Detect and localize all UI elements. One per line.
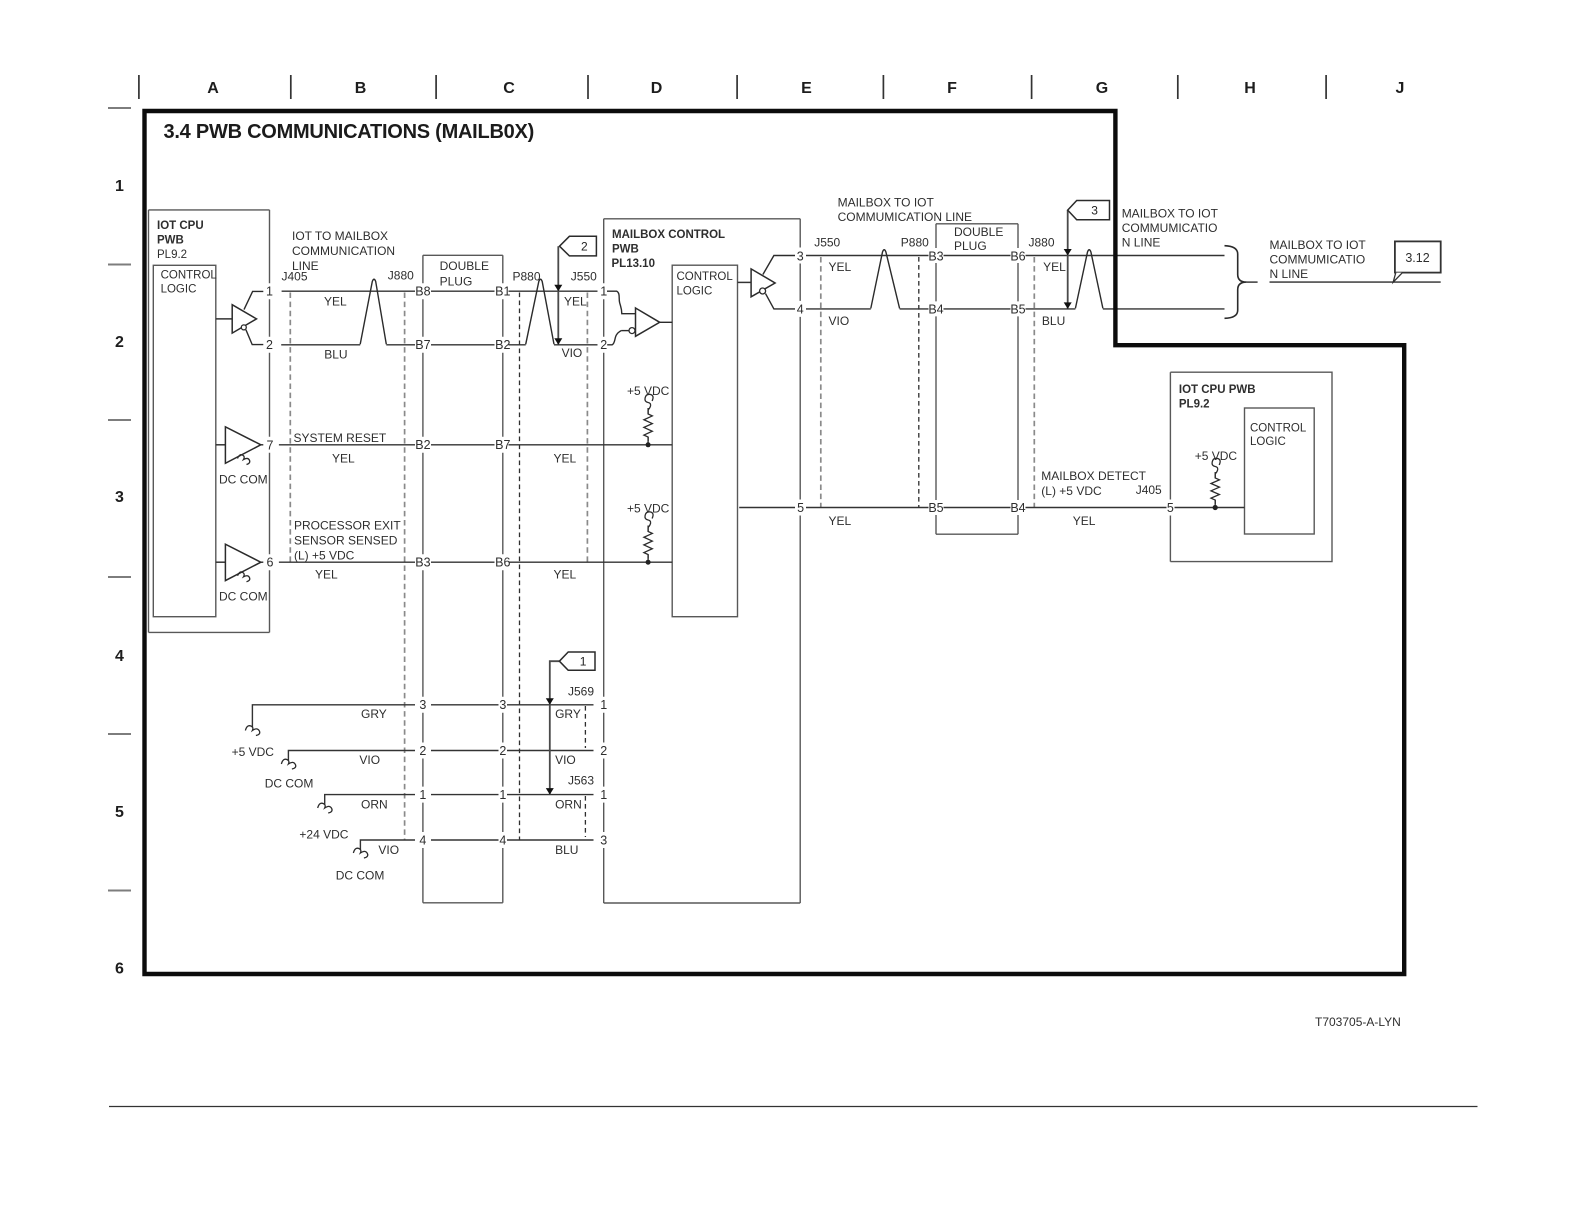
differential driver gate U5 (mailbox out) [738,256,796,309]
svg-text:MAILBOX CONTROL: MAILBOX CONTROL [612,229,725,241]
svg-text:YEL: YEL [554,568,577,582]
svg-text:B: B [355,80,367,97]
svg-text:2: 2 [581,239,588,253]
svg-text:2: 2 [419,744,426,758]
svg-text:3: 3 [797,249,804,263]
svg-text:DOUBLE: DOUBLE [440,259,489,273]
svg-text:PWB: PWB [612,243,639,255]
svg-text:DC COM: DC COM [219,473,268,487]
differential receiver gate U4 (mailbox in) [607,291,672,345]
svg-text:A: A [207,80,219,97]
svg-text:B6: B6 [1010,249,1025,263]
svg-text:3: 3 [419,698,426,712]
svg-text:COMMUMICATIO: COMMUMICATIO [1122,221,1218,235]
svg-text:IOT CPU: IOT CPU [157,220,204,232]
svg-text:ORN: ORN [555,798,582,812]
svg-text:PLUG: PLUG [440,275,473,289]
connector J405 dashed line [282,270,308,563]
buffer gate U3 pin6 (schmitt) [216,544,268,603]
svg-text:DC COM: DC COM [336,869,385,883]
svg-text:3.4 PWB COMMUNICATIONS (MAILB0: 3.4 PWB COMMUNICATIONS (MAILB0X) [164,121,535,143]
off-page reference 3.12 [1270,241,1441,282]
svg-text:PWB: PWB [157,234,184,246]
svg-text:BLU: BLU [555,843,578,857]
svg-text:3: 3 [499,698,506,712]
mailbox left pin labels [600,285,607,848]
wire row1 IOT pin1 to mailbox pin1 (YEL) [282,291,598,308]
svg-text:B7: B7 [495,438,510,452]
svg-text:+5 VDC: +5 VDC [1195,449,1238,463]
svg-text:B4: B4 [928,303,943,317]
resistor R2 +5 VDC pull-up to row6 [627,502,670,565]
label IOT TO MAILBOX COMMUNICATION LINE [292,229,395,273]
CONTROL LOGIC box (left IOT CPU) [153,265,217,616]
svg-text:YEL: YEL [1073,514,1096,528]
DOUBLE PLUG box 1 [423,255,503,903]
MAILBOX CONTROL PWB box [604,219,801,903]
label MAILBOX TO IOT COMMUMICATION LINE (top) [838,196,972,225]
svg-text:ORN: ORN [361,798,388,812]
CONTROL LOGIC box (right IOT CPU) [1245,408,1315,534]
DOUBLE PLUG 1 left pin labels [415,285,430,848]
svg-text:YEL: YEL [332,452,355,466]
resistor R1 +5 VDC pull-up to row7 [627,384,670,447]
wire row GRY with +5 VDC source hook [232,705,594,759]
svg-text:P880: P880 [901,236,929,250]
svg-text:3: 3 [1091,203,1098,217]
svg-text:YEL: YEL [315,568,338,582]
flag 2 with arrows [554,236,596,344]
IOT CPU PWB right box [1170,372,1332,561]
svg-text:VIO: VIO [359,753,380,767]
svg-text:B8: B8 [415,285,430,299]
brace to off-page [1225,246,1258,319]
DOUBLE PLUG box 2 [936,224,1018,534]
svg-text:1: 1 [419,788,426,802]
svg-text:J: J [1396,80,1405,97]
wire row3 mailbox pin3 (YEL) [806,256,1225,274]
connector J569 dashed segment [568,685,594,749]
svg-text:7: 7 [267,438,274,452]
svg-text:+5 VDC: +5 VDC [627,502,670,516]
svg-text:DOUBLE: DOUBLE [954,225,1003,239]
svg-text:VIO: VIO [562,346,583,360]
mailbox right pin labels 3 4 5 [797,249,804,515]
svg-text:3.12: 3.12 [1405,251,1429,265]
svg-text:B2: B2 [495,338,510,352]
svg-text:LOGIC: LOGIC [1250,436,1286,448]
svg-text:VIO: VIO [829,314,850,328]
svg-text:PL13.10: PL13.10 [612,258,655,270]
svg-text:2: 2 [600,338,607,352]
svg-text:COMMUMICATIO: COMMUMICATIO [1270,253,1366,267]
svg-text:N LINE: N LINE [1122,236,1161,250]
svg-text:B2: B2 [415,438,430,452]
svg-text:F: F [947,80,957,97]
flag 1 with arrows [546,652,595,795]
svg-text:T703705-A-LYN: T703705-A-LYN [1315,1015,1401,1029]
connector J550 right dashed line [814,236,840,508]
DOUBLE PLUG 2 right pin labels [1010,249,1025,515]
svg-text:CONTROL: CONTROL [1250,422,1307,434]
buffer gate U2 pin7 (schmitt) [216,427,268,487]
svg-text:MAILBOX DETECT: MAILBOX DETECT [1041,469,1146,483]
svg-text:B1: B1 [495,285,510,299]
label MAILBOX TO IOT COMMUMICATIO N LINE (inner) [1122,207,1219,250]
svg-text:2: 2 [266,338,273,352]
drawing number T703705-A-LYN [1315,1015,1401,1029]
resistor R3 +5 VDC pull-up (right IOT) [1195,449,1238,510]
CONTROL LOGIC box (mailbox) [672,265,737,617]
svg-text:YEL: YEL [324,295,347,309]
svg-text:5: 5 [115,804,124,821]
svg-text:PLUG: PLUG [954,239,987,253]
svg-text:YEL: YEL [829,260,852,274]
svg-text:4: 4 [499,833,506,847]
svg-text:DC COM: DC COM [219,590,268,604]
svg-text:+24 VDC: +24 VDC [299,828,348,842]
IOT left pin labels 1 2 7 6 [266,285,274,570]
svg-text:E: E [801,80,812,97]
IOT CPU PWB left box [149,210,270,633]
svg-text:6: 6 [115,961,124,978]
svg-text:DC COM: DC COM [265,777,314,791]
svg-text:J550: J550 [814,236,840,250]
svg-text:(L) +5 VDC: (L) +5 VDC [1041,484,1102,498]
svg-text:CONTROL: CONTROL [677,271,734,283]
twisted pair twist symbol 1 [360,279,386,344]
svg-text:(L) +5 VDC: (L) +5 VDC [294,549,355,563]
twisted pair twist symbol 4 [1075,250,1103,309]
svg-text:D: D [651,80,663,97]
svg-text:BLU: BLU [1042,314,1065,328]
svg-text:3: 3 [115,489,124,506]
wire row ORN with +24 VDC hook [299,795,593,842]
svg-text:IOT TO MAILBOX: IOT TO MAILBOX [292,229,388,243]
svg-text:YEL: YEL [829,514,852,528]
footer rule [109,1106,1478,1108]
wire row2 IOT pin2 to mailbox pin2 (BLU/VIO) [281,345,597,362]
svg-text:PL9.2: PL9.2 [1179,399,1210,411]
row header ruler [108,108,131,978]
svg-text:LINE: LINE [292,259,319,273]
svg-text:J569: J569 [568,685,594,699]
wire row6 PROCESSOR EXIT SENSOR (YEL) [279,519,672,582]
svg-text:H: H [1244,80,1256,97]
svg-text:YEL: YEL [1043,260,1066,274]
svg-text:SENSOR SENSED: SENSOR SENSED [294,534,398,548]
title [164,121,535,143]
DOUBLE PLUG 1 right pin labels [495,285,510,848]
svg-text:PL9.2: PL9.2 [157,249,187,261]
svg-text:N LINE: N LINE [1270,267,1309,281]
svg-text:YEL: YEL [564,295,587,309]
connector J550 dashed line [571,270,597,563]
svg-text:GRY: GRY [361,707,387,721]
svg-text:LOGIC: LOGIC [161,284,197,296]
svg-text:2: 2 [499,744,506,758]
svg-text:J880: J880 [1029,236,1055,250]
svg-text:J563: J563 [568,774,594,788]
svg-text:IOT CPU PWB: IOT CPU PWB [1179,384,1256,396]
svg-text:+5 VDC: +5 VDC [232,745,275,759]
svg-text:2: 2 [600,744,607,758]
connector J880 right dashed line [1029,236,1055,508]
svg-text:GRY: GRY [555,707,581,721]
svg-text:5: 5 [1167,501,1174,515]
svg-text:1: 1 [499,788,506,802]
svg-text:4: 4 [419,833,426,847]
wire row VIO/BLU with DC COM hook [336,840,594,883]
wire row4 mailbox pin4 (VIO/BLU) [806,309,1225,328]
connector J563 dashed segment [568,774,594,838]
svg-text:B3: B3 [415,556,430,570]
svg-text:C: C [503,80,515,97]
wire row VIO with DC COM hook [265,751,594,791]
svg-text:YEL: YEL [554,452,577,466]
connector P880 dashed line [513,270,541,841]
column header ruler [139,75,1405,99]
svg-text:B7: B7 [415,338,430,352]
svg-text:1: 1 [266,285,273,299]
svg-text:LOGIC: LOGIC [677,285,713,297]
svg-text:B3: B3 [928,249,943,263]
svg-text:4: 4 [797,303,804,317]
svg-text:2: 2 [115,334,124,351]
svg-text:COMMUNICATION: COMMUNICATION [292,244,395,258]
svg-text:P880: P880 [513,270,541,284]
svg-text:5: 5 [797,501,804,515]
svg-text:1: 1 [600,788,607,802]
svg-text:CONTROL: CONTROL [161,269,218,281]
svg-text:B4: B4 [1010,501,1025,515]
svg-text:B5: B5 [928,501,943,515]
svg-text:1: 1 [600,285,607,299]
connector J880 dashed line [388,269,414,841]
svg-text:1: 1 [580,654,587,668]
svg-text:COMMUMICATION LINE: COMMUMICATION LINE [838,210,972,224]
svg-text:MAILBOX TO IOT: MAILBOX TO IOT [1270,238,1367,252]
frame border [145,111,1405,974]
svg-text:B6: B6 [495,556,510,570]
svg-text:6: 6 [267,556,274,570]
svg-text:J880: J880 [388,269,414,283]
svg-text:4: 4 [115,648,124,665]
svg-text:1: 1 [600,698,607,712]
svg-text:J405: J405 [1136,483,1162,497]
label MAILBOX TO IOT COMMUMICATIO N LINE (outer) [1270,238,1367,281]
svg-text:BLU: BLU [324,348,347,362]
DOUBLE PLUG 2 left pin labels [928,249,943,515]
svg-text:MAILBOX TO IOT: MAILBOX TO IOT [838,196,935,210]
twisted pair twist symbol 3 [871,250,900,309]
flag 3 with arrows [1064,201,1110,309]
svg-text:J550: J550 [571,270,597,284]
twisted pair twist symbol 2 [526,279,554,344]
wire row7 SYSTEM RESET (YEL) [279,431,672,466]
svg-text:VIO: VIO [378,843,399,857]
svg-text:PROCESSOR EXIT: PROCESSOR EXIT [294,519,401,533]
svg-text:G: G [1096,80,1108,97]
differential driver gate U1 (IOT left) [216,291,263,344]
svg-text:MAILBOX TO IOT: MAILBOX TO IOT [1122,207,1219,221]
connector P880 right dashed line [901,236,929,508]
svg-text:B5: B5 [1010,303,1025,317]
svg-text:3: 3 [600,833,607,847]
svg-text:VIO: VIO [555,753,576,767]
svg-text:1: 1 [115,178,124,195]
wire row5 MAILBOX DETECT (YEL) [739,469,1244,528]
svg-text:SYSTEM RESET: SYSTEM RESET [294,431,387,445]
svg-text:+5 VDC: +5 VDC [627,384,670,398]
right IOT pin label 5 [1167,501,1174,515]
